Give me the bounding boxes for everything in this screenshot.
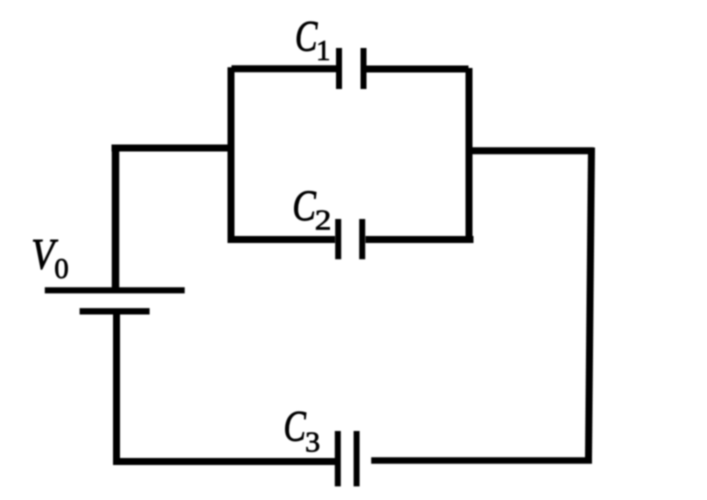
wire: bottom right segment xyxy=(371,457,592,464)
wire: C2 branch left segment xyxy=(228,236,336,243)
wire: bottom left segment xyxy=(113,458,335,465)
label V0 xyxy=(31,230,68,285)
wire: top branch left segment xyxy=(232,65,337,72)
label C1 xyxy=(295,14,331,67)
capacitor C1 left plate xyxy=(336,48,342,89)
svg-text:3: 3 xyxy=(305,427,320,458)
wire: left junction horizontal xyxy=(112,145,234,152)
wire: right junction horizontal xyxy=(469,147,594,154)
wire: parallel right leg vertical xyxy=(466,68,473,241)
wire: left main vertical lower xyxy=(113,314,120,462)
wire: top branch right segment xyxy=(367,66,469,73)
label C2 xyxy=(292,182,331,236)
svg-text:2: 2 xyxy=(315,204,332,236)
svg-text:C: C xyxy=(295,14,318,61)
wire: left main vertical upper xyxy=(112,145,120,289)
battery V0 long plate xyxy=(45,287,185,293)
wire: parallel left leg vertical xyxy=(228,67,235,240)
svg-text:0: 0 xyxy=(54,253,68,285)
capacitor C3 left plate xyxy=(335,431,341,486)
wire: right main vertical xyxy=(589,148,592,459)
capacitor C1 right plate xyxy=(361,48,367,89)
capacitor C3 right plate xyxy=(354,431,360,486)
label C3 xyxy=(284,404,321,459)
wire: C2 branch right segment xyxy=(366,236,474,243)
svg-text:C: C xyxy=(292,182,316,230)
svg-text:C: C xyxy=(284,404,307,451)
capacitor C2 left plate xyxy=(335,219,341,259)
svg-text:1: 1 xyxy=(316,35,331,67)
capacitor C2 right plate xyxy=(359,219,365,259)
battery V0 short plate xyxy=(80,308,150,314)
